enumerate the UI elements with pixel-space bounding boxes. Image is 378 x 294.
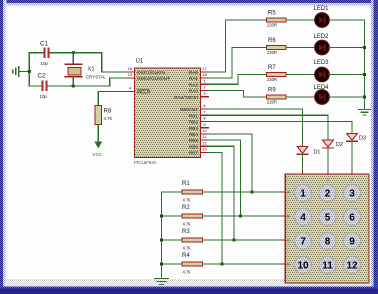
svg-text:8: 8: [325, 237, 331, 248]
wire RB1 to D2 column: [209, 115, 329, 140]
wire C1 row: [29, 52, 43, 54]
svg-text:4.7k: 4.7k: [183, 270, 192, 275]
op-amp U1 body: [134, 59, 201, 166]
pin 16 OSC1 stub: [127, 66, 165, 75]
wire RA3 to R9: [209, 91, 267, 98]
wire RA2 to R7: [209, 75, 267, 85]
svg-text:5: 5: [325, 213, 331, 224]
svg-text:220R: 220R: [267, 50, 277, 55]
svg-text:X1: X1: [88, 67, 95, 73]
svg-text:R2: R2: [182, 205, 190, 211]
resistor R8: [95, 106, 113, 125]
node row A / RB4: [250, 190, 253, 193]
svg-text:OSC1/CLKIN: OSC1/CLKIN: [137, 70, 165, 75]
node bus row D: [160, 262, 163, 265]
button 7: [295, 233, 312, 250]
crystal X1: [65, 53, 106, 86]
svg-text:VCC: VCC: [93, 152, 103, 157]
keypad column labels: [302, 178, 354, 182]
diode D2: [323, 140, 343, 171]
wire node to OSC2: [73, 78, 126, 86]
wire row C to keypad: [203, 239, 282, 241]
LED4: [314, 85, 330, 104]
capacitor C1: [40, 41, 50, 66]
node (bus-ground junction): [28, 70, 31, 73]
svg-text:4.7k: 4.7k: [183, 246, 192, 251]
wire RB6 to row C: [209, 146, 235, 240]
svg-text:RA1: RA1: [189, 76, 199, 81]
wire C2 row: [29, 85, 41, 87]
node bus row C: [160, 238, 163, 241]
pin 15 OSC2 stub: [127, 72, 171, 81]
wire LED right bus: [329, 20, 365, 107]
wire RB0 to D1 column: [209, 109, 303, 146]
wire row B to keypad: [203, 215, 282, 217]
svg-text:2: 2: [327, 178, 329, 182]
resistor R4: [182, 253, 203, 275]
diode D1: [297, 146, 320, 170]
button 4: [295, 209, 312, 226]
node row D / RB7: [220, 262, 223, 265]
svg-text:RB3: RB3: [189, 126, 199, 131]
button 11: [319, 257, 336, 274]
svg-text:13: 13: [202, 147, 207, 152]
svg-text:10p: 10p: [40, 94, 48, 99]
resistor R9: [267, 88, 287, 105]
power VCC arrow: [94, 142, 102, 149]
svg-text:R6: R6: [268, 38, 276, 44]
wire RB4 to row A: [209, 134, 253, 192]
LED2: [314, 34, 330, 55]
resistor R2: [182, 205, 203, 227]
button 10: [295, 257, 312, 274]
resistor R6: [267, 38, 287, 55]
node LED2 bus: [363, 46, 366, 49]
svg-text:RA0: RA0: [189, 70, 199, 75]
wire node to OSC1: [73, 53, 126, 72]
button 2: [319, 185, 336, 202]
svg-text:9: 9: [349, 237, 355, 248]
svg-text:RB1: RB1: [189, 113, 199, 118]
wire RA0 to R5: [209, 20, 267, 72]
keypad row labels: [287, 191, 290, 267]
wires R to LED: [286, 20, 315, 97]
svg-text:RB0/INT: RB0/INT: [180, 107, 198, 112]
svg-text:R8: R8: [104, 109, 112, 115]
svg-text:RB4: RB4: [189, 132, 199, 137]
svg-text:4: 4: [300, 213, 306, 224]
wire row B: [162, 215, 183, 217]
node B (crystal bottom): [72, 84, 75, 87]
right side pin names: [174, 70, 198, 156]
svg-text:R7: R7: [268, 65, 276, 71]
button 5: [319, 209, 336, 226]
wire R8 to VCC: [97, 125, 99, 143]
svg-text:RB7: RB7: [189, 151, 199, 156]
diode D3: [347, 133, 366, 170]
resistor R3: [182, 229, 203, 251]
pin 4 MCLR stub: [127, 86, 151, 95]
svg-text:3: 3: [351, 178, 353, 182]
svg-text:3: 3: [349, 189, 355, 200]
ground (LED bus): [359, 107, 370, 115]
wire left bus: [28, 53, 30, 86]
svg-text:D1: D1: [314, 150, 321, 156]
page border top: [0, 0, 378, 3]
svg-text:17: 17: [202, 66, 207, 71]
svg-text:220R: 220R: [267, 77, 277, 82]
svg-text:6: 6: [349, 213, 355, 224]
button 1: [295, 185, 312, 202]
svg-text:RA3: RA3: [189, 89, 199, 94]
wire RB2 to D3 column: [209, 122, 353, 134]
svg-text:LED4: LED4: [314, 85, 330, 91]
page border left: [0, 0, 3, 294]
svg-text:10: 10: [202, 128, 207, 133]
right side pin stubs: [201, 72, 209, 153]
node LED3 bus: [363, 73, 366, 76]
button 3: [344, 185, 361, 202]
svg-text:15: 15: [128, 72, 133, 77]
page border bottom: [0, 288, 378, 294]
svg-text:1: 1: [302, 178, 304, 182]
wire row A: [162, 191, 183, 193]
svg-text:1: 1: [300, 189, 306, 200]
wire row D: [162, 263, 183, 265]
button 6: [344, 209, 361, 226]
svg-text:7: 7: [300, 237, 306, 248]
wire row C: [162, 239, 183, 241]
wire row A to keypad: [203, 191, 282, 193]
svg-text:CRYSTAL: CRYSTAL: [86, 74, 106, 79]
ground (left): [13, 66, 30, 76]
svg-text:LED2: LED2: [314, 34, 330, 40]
svg-text:LED1: LED1: [314, 6, 330, 12]
wire RA1 to R6: [209, 48, 267, 79]
wire row D to keypad: [203, 263, 282, 265]
svg-text:RB6: RB6: [189, 144, 199, 149]
left pull bus: [161, 192, 163, 277]
node bus row B: [160, 214, 163, 217]
keypad column stubs: [303, 171, 353, 175]
svg-text:10: 10: [297, 261, 309, 272]
resistor R7: [267, 65, 287, 82]
svg-text:R1: R1: [182, 181, 190, 187]
LED3: [314, 60, 330, 82]
svg-text:12: 12: [202, 140, 207, 145]
button 12: [344, 257, 361, 274]
svg-text:220R: 220R: [267, 100, 277, 105]
wire C1 to node: [50, 52, 74, 54]
svg-text:10p: 10p: [41, 61, 49, 66]
svg-text:11: 11: [322, 261, 333, 272]
svg-text:C1: C1: [40, 41, 49, 48]
svg-text:OSC2/CLKOUT: OSC2/CLKOUT: [137, 76, 170, 81]
wire RB5 to row B: [209, 140, 241, 216]
svg-text:4.7k: 4.7k: [104, 116, 113, 121]
keypad row stubs: [281, 192, 285, 264]
wire C2 to crystal bottom node: [48, 85, 74, 87]
page border right: [374, 0, 378, 294]
svg-text:4.7k: 4.7k: [183, 222, 192, 227]
svg-text:R9: R9: [268, 88, 276, 94]
svg-text:D: D: [287, 263, 290, 267]
svg-text:12: 12: [346, 261, 358, 272]
svg-text:C: C: [287, 239, 290, 243]
wire RB7 to row D: [209, 153, 223, 265]
svg-text:C2: C2: [38, 72, 47, 79]
node A (crystal top): [72, 51, 75, 54]
keypad body: [285, 174, 369, 283]
svg-text:RA2: RA2: [189, 82, 199, 87]
svg-text:RB2: RB2: [189, 120, 199, 125]
button 8: [319, 233, 336, 250]
node row B / RB5: [239, 214, 242, 217]
svg-text:D3: D3: [359, 136, 366, 142]
svg-text:18: 18: [202, 72, 207, 77]
svg-text:D2: D2: [336, 142, 343, 148]
svg-text:16: 16: [128, 66, 133, 71]
right side pin numbers: [202, 66, 207, 152]
wire MCLR: [98, 92, 126, 106]
svg-text:LED3: LED3: [314, 60, 330, 66]
svg-text:220R: 220R: [267, 23, 277, 28]
bottom gray band: [5, 279, 378, 288]
LED1: [314, 6, 330, 27]
resistor R1: [182, 181, 203, 203]
ground (pull bus): [155, 279, 169, 285]
node LED4 bus: [363, 95, 366, 98]
svg-text:2: 2: [325, 189, 331, 200]
svg-text:RA4/T0CKI: RA4/T0CKI: [174, 95, 198, 100]
keypad buttons: [295, 185, 361, 274]
svg-text:R5: R5: [268, 11, 276, 17]
capacitor C2: [38, 72, 48, 99]
svg-text:PIC16F84A: PIC16F84A: [134, 160, 157, 165]
svg-text:R3: R3: [182, 229, 190, 235]
resistor R5: [267, 11, 287, 28]
svg-text:RB5: RB5: [189, 138, 199, 143]
svg-text:R4: R4: [182, 253, 190, 259]
svg-text:U1: U1: [136, 59, 144, 65]
node row C / RB6: [232, 238, 235, 241]
svg-text:4.7k: 4.7k: [183, 198, 192, 203]
button 9: [344, 233, 361, 250]
svg-text:MCLR: MCLR: [137, 90, 151, 95]
